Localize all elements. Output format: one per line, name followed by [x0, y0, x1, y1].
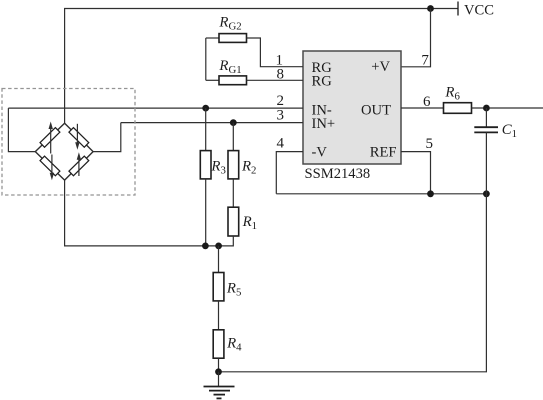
svg-text:+V: +V	[371, 59, 390, 75]
wire IN- rail pin2	[8, 107, 303, 109]
svg-text:5: 5	[426, 136, 434, 152]
wire R4 to ground	[218, 358, 220, 372]
wire output down to C1	[485, 108, 487, 127]
svg-text:3: 3	[277, 108, 285, 124]
pin label IN+	[312, 116, 336, 132]
wire RG2 right to pin1	[247, 38, 304, 67]
pin number 7	[421, 53, 429, 69]
strain gauge top-right	[69, 128, 89, 148]
wire RG1 left	[206, 79, 219, 81]
svg-text:2: 2	[277, 93, 285, 109]
bridge diamond	[35, 123, 93, 180]
wire pin7 to +V	[401, 9, 431, 67]
node junction output C1	[483, 105, 490, 112]
resistor R4	[213, 330, 224, 358]
resistor R2	[228, 151, 239, 179]
svg-text:4: 4	[277, 136, 285, 152]
VCC label	[464, 3, 494, 19]
resistor RG1	[219, 76, 247, 85]
pin number 5	[426, 136, 434, 152]
svg-text:-V: -V	[312, 144, 328, 160]
strain gauge bottom-right	[69, 156, 89, 176]
VCC terminal bar	[457, 2, 459, 16]
svg-text:VCC: VCC	[464, 3, 494, 19]
wire RG2 left	[206, 37, 219, 39]
resistor R1	[228, 207, 239, 236]
node junction IN+ R2	[230, 119, 237, 126]
pin number 1	[276, 52, 284, 68]
wire R2 column top	[232, 123, 234, 151]
pin label RG pin8	[312, 74, 333, 90]
pin label -V	[312, 144, 328, 160]
wire top VCC rail	[65, 9, 458, 124]
node junction top rail to pin7	[427, 5, 434, 12]
wire C1 down to bottom	[219, 132, 487, 371]
arrow bottom-left down	[50, 155, 54, 181]
wire RG1 right to pin8	[247, 79, 304, 81]
node junction R5 top	[215, 243, 222, 250]
wire R3 bottom	[205, 179, 207, 246]
pin number 3	[277, 108, 285, 124]
node junction R3 bottom	[202, 243, 209, 250]
wire IN+ rail pin3	[121, 122, 303, 124]
wire pin5 REF down	[401, 152, 431, 194]
svg-text:REF: REF	[370, 144, 397, 160]
value label SSM21438	[305, 166, 371, 182]
pin label RG pin1	[312, 60, 333, 76]
pin number 2	[277, 93, 285, 109]
node junction IN- R3	[202, 105, 209, 112]
resistor R5	[213, 273, 224, 301]
pin label +V	[371, 59, 390, 75]
arrow top-left up	[49, 122, 53, 154]
label RG2	[218, 15, 241, 33]
svg-text:SSM21438: SSM21438	[305, 166, 371, 182]
wire pin6 OUT to R6	[401, 107, 444, 109]
resistor R3	[200, 151, 211, 179]
label R6	[444, 84, 460, 102]
label R3	[210, 159, 225, 177]
capacitor C1	[474, 127, 498, 132]
wire R1 bottom to junction	[219, 236, 234, 246]
wire bottom REF rail	[276, 193, 486, 195]
pin label IN-	[312, 102, 332, 118]
op-amp U1 SSM21438 body	[303, 51, 401, 164]
wire bridge right to IN+	[93, 123, 121, 152]
label R1	[242, 214, 257, 232]
wire bridge left to IN-	[8, 108, 35, 152]
resistor RG2	[219, 34, 247, 43]
arrow bottom-right up	[77, 152, 81, 176]
label R5	[226, 281, 241, 299]
label R2	[241, 159, 256, 177]
wire RG loop left vertical	[205, 38, 207, 80]
wire junction to R5	[218, 246, 220, 273]
pin number 6	[423, 94, 431, 110]
strain gauge top-left	[40, 128, 60, 148]
wire R5 to R4	[218, 301, 220, 330]
svg-text:RG: RG	[312, 74, 333, 90]
pin number 4	[277, 136, 285, 152]
dashed sensor enclosure box	[2, 89, 135, 196]
resistor R6	[444, 103, 472, 114]
strain gauge bottom-left	[40, 156, 60, 176]
arrow top-right down	[75, 124, 79, 150]
label RG1	[218, 58, 241, 76]
wire pin4 -V down to rail	[276, 152, 303, 194]
pin number 8	[277, 66, 285, 82]
wire R6 to output	[472, 107, 543, 109]
wire R2 to R1	[232, 179, 234, 207]
ground	[204, 372, 235, 399]
wire bridge bottom	[65, 180, 219, 246]
wire R3 column	[205, 108, 207, 151]
node junction REF rail	[427, 190, 434, 197]
svg-text:IN+: IN+	[312, 116, 336, 132]
svg-text:7: 7	[421, 53, 429, 69]
node junction rail C1 column	[483, 190, 490, 197]
node junction ground	[215, 368, 222, 375]
pin label REF	[370, 144, 397, 160]
label R4	[226, 336, 242, 354]
svg-text:OUT: OUT	[361, 102, 391, 118]
label C1	[502, 122, 517, 140]
pin label OUT	[361, 102, 391, 118]
